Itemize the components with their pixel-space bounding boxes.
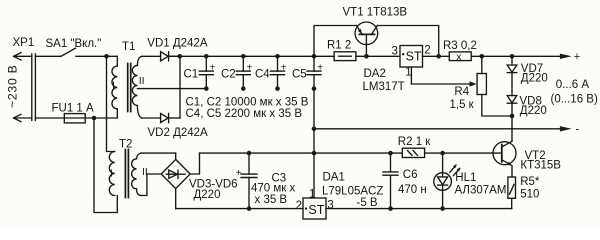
diode VD2 Д242А [148,113,209,138]
wire T2 secondary top to bridge [141,152,176,154]
svg-text:+: + [247,62,253,73]
svg-text:R2 1 к: R2 1 к [398,136,431,148]
wire plug to switch [35,55,61,57]
resistor R2 1 к [398,136,431,157]
svg-text:-: - [576,124,580,136]
svg-text:~230 В: ~230 В [6,64,20,108]
capacitor C1 [184,54,216,91]
svg-text:DA1: DA1 [323,172,345,184]
T1 core [128,64,131,112]
svg-text:T1: T1 [122,41,135,53]
wire bridge plus riser to 0V line [190,153,199,174]
svg-text:470 н: 470 н [398,184,427,196]
svg-text:C1, C2 10000 мк x 35 В: C1, C2 10000 мк x 35 В [186,96,309,108]
svg-text:C4: C4 [255,69,270,81]
node junction fuse wire / T2 branch [92,116,97,121]
transformer T2 [109,139,148,198]
wire DA2 pin1 to R4 wiper [411,67,469,84]
svg-text:I: I [110,168,113,180]
svg-text:1: 1 [309,188,315,200]
wire VD2 cathode riser [179,56,181,118]
svg-text:R4: R4 [454,86,469,98]
svg-text:+: + [236,168,242,179]
node VD1/VD2 cathodes [178,54,183,59]
svg-text:C1: C1 [184,69,199,81]
wire VT1 collector to output node [377,26,438,57]
T2 core [125,150,128,198]
resistor R5* 510 [508,176,540,208]
bridge rectifier VD3-VD6 Д220 [161,153,237,209]
wire VT1 emitter riser from raw positive [314,26,357,57]
svg-text:+: + [574,51,580,63]
op-amp regulator DA2 LM317T [363,45,431,93]
svg-text:Д220: Д220 [520,105,547,117]
svg-text:(0...16 В): (0...16 В) [551,94,598,106]
svg-text:0...6 А: 0...6 А [556,79,590,91]
transistor VT1 1Т813В [343,6,408,56]
wire -5V rail right segment [326,208,512,210]
connector XP1 [6,37,36,122]
output arrow + [560,51,580,63]
diode VD1 Д242А [147,38,208,61]
output arrow - [560,124,580,136]
svg-text:ST: ST [308,203,324,217]
svg-text:Д220: Д220 [521,72,548,84]
svg-text:х: х [456,51,462,63]
svg-text:R3 0,2: R3 0,2 [443,40,477,52]
svg-text:510: 510 [520,188,539,200]
svg-text:3: 3 [327,200,333,212]
wire R2 to VT2 base [425,152,502,154]
svg-text:-5 В: -5 В [357,197,378,209]
wire 0V line [200,152,403,154]
wire T2 primary branch from fuse node [94,118,117,213]
wire T1 secondary top to VD1 [142,55,161,57]
capacitor C6 470 н [383,151,427,211]
svg-text:КТ315В: КТ315В [520,160,561,172]
svg-text:Д220: Д220 [194,189,221,201]
transformer T1 [112,41,206,118]
node R3 / R4 top [480,54,485,59]
node R4 bottom / VD8 / VT2 collector [510,114,515,119]
svg-text:L79L05ACZ: L79L05ACZ [322,185,383,197]
svg-text:3: 3 [392,46,398,58]
label capacitor values [186,96,309,120]
svg-text:R1 2: R1 2 [327,39,351,51]
node junction at SA1/T2 branch [104,54,109,59]
wire -5V rail left segment [176,208,303,210]
capacitor C5 [292,54,323,91]
wire VT2 collector riser [511,116,513,141]
T2 secondary winding II [132,153,141,195]
svg-text:+: + [317,62,323,73]
svg-text:R5*: R5* [520,176,540,188]
node negative rail start [312,127,317,132]
T1 secondary winding II [132,56,141,118]
svg-text:х 35 В: х 35 В [255,194,288,206]
wire main positive rail [168,55,334,57]
transistor VT2 КТ315В [493,141,561,177]
svg-text:2: 2 [296,200,302,212]
svg-text:C5: C5 [292,69,307,81]
wire negative rail [314,128,560,130]
wire R3 to output [471,55,560,57]
LED HL1 АЛ307АМ [434,153,507,211]
svg-text:DA2: DA2 [364,68,386,80]
regulator DA1 L79L05ACZ [296,172,384,219]
svg-text:2: 2 [424,45,430,57]
svg-text:II: II [139,75,145,87]
wire DA2 pin2 to node [423,55,450,57]
wire top rail to T1 primary [107,56,118,66]
capacitor C3 [236,151,296,211]
svg-text:VD1 Д242А: VD1 Д242А [147,38,208,50]
diode VD8 Д220 [507,96,547,117]
node DA2 pin2 / VT1 collector [436,54,441,59]
wire T2 secondary bottom to bridge left corner [141,174,161,196]
node HL1 top [440,151,445,156]
switch SA1 "Вкл." [46,38,107,56]
svg-text:ST: ST [406,49,422,63]
potentiometer R4 1,5 к [450,56,513,116]
T1 center tap wire [137,88,206,90]
svg-text:+: + [210,62,216,73]
svg-text:+: + [281,62,287,73]
node 0V line junction [312,151,317,156]
wire T1 secondary bottom to VD2 [142,117,161,119]
diode VD7 Д220 [507,56,548,95]
wire T2 primary branch from switch node [107,56,115,151]
svg-text:C6: C6 [403,169,418,181]
node VT1 base / R1 [364,54,369,59]
svg-text:C4, C5 2200 мк x 35 В: C4, C5 2200 мк x 35 В [186,108,303,120]
svg-text:FU1 1 А: FU1 1 А [52,102,95,114]
capacitor C4 [255,54,287,91]
svg-text:1,5 к: 1,5 к [450,99,475,111]
svg-text:LM317T: LM317T [363,81,405,93]
resistor R3 0,2 [443,40,477,63]
svg-text:АЛ307АМ: АЛ307АМ [455,184,507,196]
svg-text:470 мк x: 470 мк x [251,183,296,195]
svg-text:VD2 Д242А: VD2 Д242А [148,127,209,139]
svg-text:XP1: XP1 [13,37,35,49]
svg-text:C2: C2 [221,69,236,81]
T2 primary winding I [109,152,115,196]
resistor R1 2 [327,39,356,60]
capacitor C2 [221,54,253,91]
T1 primary winding I [112,66,117,118]
node VD7 top [510,54,515,59]
svg-text:I: I [112,80,115,92]
fuse FU1 1 A [35,102,117,123]
wire raw negative vertical (C5 to DA1 pin1) [313,89,315,198]
wire R1 to DA2 [356,55,400,57]
svg-text:VT1 1Т813В: VT1 1Т813В [343,6,408,18]
svg-text:SA1 "Вкл.": SA1 "Вкл." [46,38,102,50]
svg-text:HL1: HL1 [455,172,476,184]
